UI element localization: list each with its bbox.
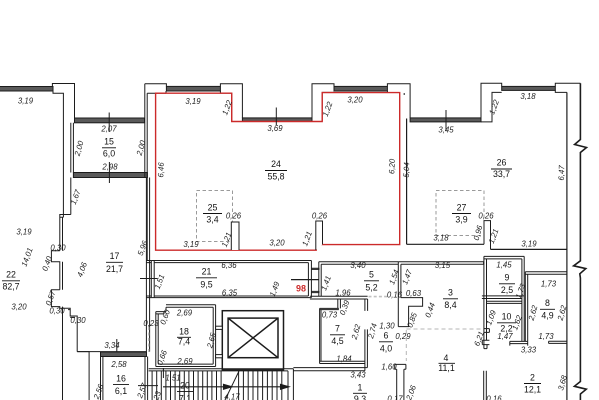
svg-text:4,5: 4,5 [331, 336, 343, 346]
svg-text:3,20: 3,20 [269, 239, 285, 248]
svg-text:1,73: 1,73 [538, 332, 554, 341]
pillar P6 top-right corner [555, 83, 580, 92]
room 16 side walls [101, 357, 148, 400]
svg-text:21: 21 [202, 267, 212, 277]
svg-text:6,47: 6,47 [557, 165, 567, 181]
svg-text:3,19: 3,19 [185, 97, 201, 106]
svg-text:25: 25 [208, 203, 218, 213]
outer right wall with break symbols [574, 83, 587, 400]
rooms 9/10 walls [482, 256, 528, 348]
svg-text:98: 98 [296, 284, 306, 294]
svg-text:0,26: 0,26 [478, 212, 494, 221]
left exterior wall with jogs [51, 119, 89, 400]
svg-text:1,73: 1,73 [541, 280, 557, 289]
svg-text:33,7: 33,7 [493, 169, 510, 179]
svg-text:3,19: 3,19 [18, 97, 34, 106]
room 26 walls [407, 92, 567, 400]
svg-text:9,3: 9,3 [354, 394, 366, 400]
svg-text:82,7: 82,7 [2, 282, 19, 292]
svg-text:0,30: 0,30 [50, 244, 66, 253]
svg-text:3,33: 3,33 [521, 346, 537, 355]
room 1 top wall [293, 368, 367, 371]
svg-text:24: 24 [271, 159, 281, 169]
svg-text:22: 22 [6, 270, 16, 280]
svg-text:15: 15 [104, 137, 114, 147]
room 8 walls [525, 272, 567, 344]
svg-text:1,45: 1,45 [496, 261, 512, 270]
svg-text:3,15: 3,15 [435, 261, 451, 270]
svg-text:4,0: 4,0 [380, 344, 392, 354]
svg-text:20: 20 [180, 381, 190, 391]
svg-text:2,69: 2,69 [176, 309, 193, 318]
svg-text:17: 17 [110, 251, 120, 261]
svg-text:1,30: 1,30 [379, 322, 395, 331]
wall bar B (3,69 recess) [242, 118, 312, 122]
svg-text:5,2: 5,2 [365, 283, 377, 293]
svg-text:27: 27 [457, 203, 467, 213]
wall top-left exterior bar [0, 87, 53, 92]
room 1 right wall stub [395, 364, 406, 400]
dimension labels: left side [11, 228, 149, 326]
dimension labels: rooms 5 and 3 [335, 261, 450, 341]
dimension ticks top [109, 108, 446, 358]
svg-text:0,16: 0,16 [486, 395, 502, 400]
svg-text:0,30: 0,30 [49, 307, 65, 316]
red outline apartment 98 (room 24) [156, 93, 400, 251]
elevator shaft [222, 311, 283, 370]
wall stub 1 under room 24 [231, 222, 239, 250]
wall stub 2 under room 24 [316, 221, 323, 250]
svg-text:0,17: 0,17 [387, 395, 403, 400]
svg-text:3,43: 3,43 [350, 371, 366, 380]
rooms 7/6 walls [320, 308, 368, 370]
svg-text:16: 16 [116, 374, 126, 384]
svg-text:0,26: 0,26 [312, 212, 328, 221]
svg-text:3,4: 3,4 [206, 215, 218, 225]
svg-text:2,69: 2,69 [176, 357, 193, 366]
svg-text:12,1: 12,1 [524, 385, 541, 395]
room number labels [2, 137, 553, 400]
svg-text:8,4: 8,4 [444, 300, 456, 310]
svg-text:2,5: 2,5 [501, 285, 513, 295]
svg-text:7,1: 7,1 [179, 394, 191, 400]
svg-text:4,9: 4,9 [541, 311, 553, 321]
room 3 top wall and divider [398, 262, 483, 327]
svg-text:1,51: 1,51 [165, 374, 180, 383]
dimension labels: room 15 block [69, 125, 148, 206]
svg-text:21,7: 21,7 [106, 264, 123, 274]
svg-text:0,23: 0,23 [143, 319, 159, 328]
svg-text:2,98: 2,98 [101, 163, 118, 172]
dimension labels: room 24 [156, 158, 566, 249]
svg-text:3,19: 3,19 [521, 240, 537, 249]
dimension labels: top edge [18, 92, 536, 135]
svg-text:3,34: 3,34 [104, 341, 120, 350]
dashed boundaries room 4 [406, 329, 482, 361]
svg-text:18: 18 [179, 327, 189, 337]
wall bar D (3,45) [410, 118, 481, 122]
svg-text:6,20: 6,20 [387, 158, 397, 174]
tick stairs [162, 368, 164, 378]
svg-text:2,07: 2,07 [100, 125, 117, 134]
svg-text:4: 4 [444, 353, 449, 363]
wall bar C (3,20) [334, 86, 387, 91]
svg-text:10: 10 [502, 312, 512, 322]
svg-text:3,20: 3,20 [11, 303, 27, 312]
svg-text:3,19: 3,19 [16, 228, 32, 237]
svg-text:2,2: 2,2 [500, 324, 512, 334]
svg-text:3: 3 [448, 288, 453, 298]
pillar P1 (top-left corner of flat 98) [145, 84, 167, 93]
room 17 right wall [77, 178, 149, 352]
pillar P3 [312, 84, 334, 122]
svg-text:7: 7 [335, 324, 340, 334]
pillar P5 [481, 83, 502, 122]
svg-text:6,0: 6,0 [103, 149, 115, 159]
room 18 walls [156, 305, 216, 367]
svg-text:6,1: 6,1 [115, 386, 127, 396]
svg-text:6,35: 6,35 [222, 289, 238, 298]
svg-text:4,17: 4,17 [224, 393, 240, 400]
svg-text:1,60: 1,60 [381, 363, 397, 372]
dimension labels: bottom band [91, 341, 569, 400]
svg-text:5: 5 [369, 270, 374, 280]
stair direction arrow [163, 384, 289, 389]
svg-text:6: 6 [384, 331, 389, 341]
svg-text:55,8: 55,8 [267, 172, 284, 182]
svg-text:3,18: 3,18 [520, 92, 536, 101]
wall bar above room 15 [75, 118, 145, 123]
stairs [149, 369, 294, 400]
dimension labels: rooms 9 8 10 [472, 261, 568, 355]
svg-text:3,9: 3,9 [455, 215, 467, 225]
svg-text:3,45: 3,45 [438, 126, 454, 135]
pillar P2 [220, 84, 242, 122]
dimension labels: room 18 [143, 308, 218, 366]
svg-text:3,18: 3,18 [433, 234, 449, 243]
corridor 21 walls [146, 261, 311, 298]
svg-text:0,16: 0,16 [387, 291, 403, 300]
svg-text:1,96: 1,96 [335, 289, 351, 298]
svg-text:0,29: 0,29 [395, 332, 411, 341]
dimension labels: rooms 7 6 [322, 298, 397, 379]
svg-text:9,5: 9,5 [200, 280, 212, 290]
pillar P4 [387, 84, 410, 118]
svg-text:5,04: 5,04 [402, 162, 412, 178]
pillar top-left with niche [52, 84, 74, 119]
svg-text:6,36: 6,36 [221, 261, 237, 270]
wall bar E (3,18) [502, 86, 556, 90]
wall bar bottom-left (3,34) [101, 352, 147, 357]
svg-text:26: 26 [497, 158, 507, 168]
wall bar A (3,19) [166, 86, 220, 91]
svg-text:2: 2 [530, 373, 535, 383]
svg-text:0,26: 0,26 [226, 212, 242, 221]
svg-text:8: 8 [545, 298, 550, 308]
svg-text:0,63: 0,63 [406, 289, 422, 298]
closet 27 dashed [436, 191, 484, 236]
tick room16 right [138, 385, 158, 387]
svg-text:9: 9 [505, 273, 510, 283]
tick corridor left [140, 278, 158, 280]
svg-text:6,46: 6,46 [156, 162, 166, 178]
door dashes left of room 18 [148, 327, 150, 352]
wall stub 3 under room 27 [484, 221, 491, 250]
svg-text:7,4: 7,4 [178, 337, 190, 347]
room 5 walls [310, 262, 398, 311]
room 15 side walls [71, 84, 147, 261]
svg-text:2,58: 2,58 [110, 360, 127, 369]
dashed door room 5 [369, 296, 390, 298]
svg-text:1: 1 [358, 383, 363, 393]
svg-text:0,30: 0,30 [70, 316, 86, 325]
fraction lines under room numbers [2, 148, 555, 393]
tick corridor right [291, 279, 319, 281]
svg-text:3,20: 3,20 [347, 96, 363, 105]
svg-text:3,69: 3,69 [267, 124, 283, 133]
elevator wall stubs [216, 326, 223, 358]
svg-text:11,1: 11,1 [438, 363, 455, 373]
closet 25 dashed [197, 191, 233, 242]
svg-text:3,40: 3,40 [350, 261, 366, 270]
svg-text:1,84: 1,84 [336, 355, 352, 364]
wall bar below room 15 [73, 173, 147, 178]
dimension labels: corridor 21 [153, 261, 333, 298]
svg-text:3,19: 3,19 [183, 240, 199, 249]
svg-text:0,73: 0,73 [322, 311, 338, 320]
room 2 left wall [484, 371, 487, 400]
